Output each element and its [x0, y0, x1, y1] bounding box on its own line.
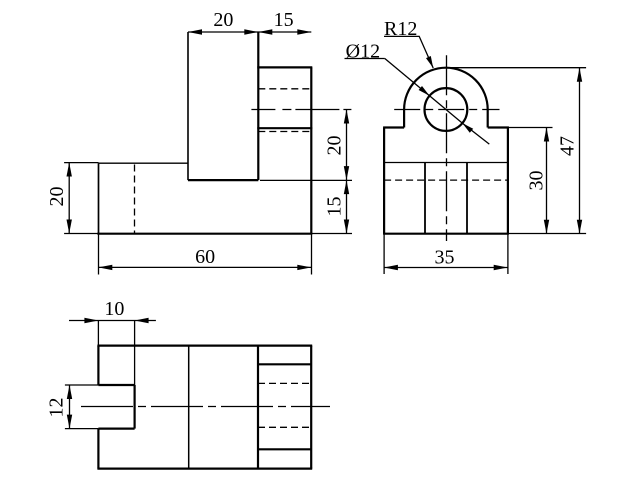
svg-text:20: 20	[213, 9, 233, 31]
notch top edge	[98, 384, 134, 386]
dimension 15 (right of front view)	[311, 180, 352, 234]
body bottom edge	[383, 233, 509, 235]
divider thin	[188, 346, 190, 469]
svg-text:20: 20	[323, 136, 345, 156]
dimension 47 (far right)	[446, 68, 586, 234]
left edge lower	[97, 429, 99, 469]
dimension 30 (right of side view)	[508, 128, 553, 234]
dimension 10 (top view)	[69, 298, 156, 385]
hidden hole upper	[258, 382, 311, 384]
hidden hole top	[258, 88, 311, 90]
plate bottom edge	[97, 233, 312, 235]
dimension 15 (top)	[258, 9, 311, 35]
outline bottom edge	[97, 468, 312, 470]
svg-text:30: 30	[525, 171, 547, 191]
label Ø12	[345, 40, 490, 144]
notch bottom edge	[98, 428, 134, 430]
column left edge	[187, 32, 189, 180]
dimension 20 (right of front view)	[260, 110, 352, 181]
svg-text:20: 20	[46, 187, 68, 207]
hidden hole bottom	[258, 131, 311, 133]
body left edge	[383, 128, 385, 234]
hole circle	[425, 88, 468, 131]
body right edge	[507, 128, 509, 234]
label R12	[384, 18, 433, 68]
step top left	[383, 126, 404, 128]
svg-text:35: 35	[435, 246, 455, 268]
lug left side	[403, 110, 405, 128]
svg-text:12: 12	[46, 398, 68, 418]
hidden step line	[384, 179, 508, 181]
hidden hole lower	[258, 426, 311, 428]
vertical centerline	[446, 55, 448, 241]
notch left edge	[424, 163, 426, 234]
dimension 35 (bottom of side view)	[384, 234, 508, 274]
left edge upper	[97, 346, 99, 385]
step bottom edge	[188, 179, 258, 181]
lug right side	[487, 110, 489, 128]
right edge	[310, 67, 312, 233]
boss bottom edge	[257, 127, 312, 129]
lug edge upper	[258, 363, 311, 365]
plate left edge	[98, 163, 100, 234]
centerline	[81, 406, 330, 408]
svg-text:15: 15	[274, 9, 294, 31]
plate top edge	[99, 162, 189, 164]
notch right edge	[466, 163, 468, 234]
notch inner edge	[134, 385, 136, 429]
svg-text:60: 60	[195, 246, 215, 268]
boss top edge	[257, 66, 312, 68]
dimension 20 (left)	[46, 163, 99, 234]
outline top edge	[97, 345, 312, 347]
dimension 20 (top)	[188, 9, 311, 35]
dimension 60 (bottom)	[98, 234, 311, 275]
dimension 12 (top view)	[46, 385, 99, 429]
svg-text:15: 15	[323, 197, 345, 217]
column right edge	[257, 32, 259, 180]
svg-text:10: 10	[104, 298, 124, 320]
outline right edge	[310, 346, 312, 469]
step top right	[488, 126, 509, 128]
lug arc R12	[404, 68, 488, 110]
hole centerline	[251, 109, 351, 111]
plate top edge	[384, 162, 508, 164]
horizontal centerline	[394, 109, 499, 111]
divider heavy	[257, 346, 259, 469]
lug edge lower	[258, 448, 311, 450]
svg-text:47: 47	[557, 136, 579, 156]
hidden notch line	[134, 165, 136, 234]
